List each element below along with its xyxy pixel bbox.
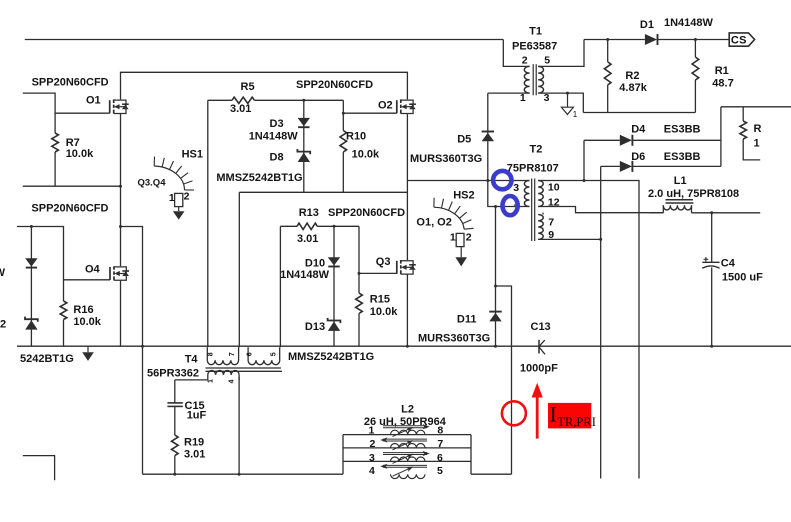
wire T2 pin10 net xyxy=(538,181,639,479)
svg-text:D3: D3 xyxy=(270,118,284,130)
junction D3 top xyxy=(302,99,305,102)
svg-text:R13: R13 xyxy=(299,207,319,219)
wire R19 bottom xyxy=(174,456,176,475)
ground arrow on rail xyxy=(87,346,89,352)
svg-text:CS: CS xyxy=(731,35,747,47)
transformer T1 core xyxy=(532,64,534,95)
junction primary return xyxy=(494,285,497,288)
annotation red label box xyxy=(548,403,591,429)
svg-text:SPP20N60CFD: SPP20N60CFD xyxy=(296,79,373,91)
transformer T4 winding 1-4 xyxy=(207,375,209,380)
diode D10 xyxy=(328,257,340,265)
svg-text:D4: D4 xyxy=(631,124,646,136)
wire C15 R19 line top xyxy=(175,379,208,381)
wire Q2 source to Q3 drain xyxy=(406,114,408,260)
svg-text:1500 uF: 1500 uF xyxy=(722,271,763,283)
annotation red arrow xyxy=(536,397,539,439)
wire R2 R1 bottom loop xyxy=(583,112,695,114)
wire R7 bottom xyxy=(54,152,56,186)
wire primary return jog xyxy=(496,286,512,474)
resistor R19 xyxy=(172,435,179,456)
wire R16 section xyxy=(63,280,65,301)
svg-text:10.0k: 10.0k xyxy=(66,148,94,160)
wire rail F xyxy=(239,191,407,193)
junction branch xyxy=(119,225,122,228)
svg-text:1: 1 xyxy=(169,192,175,204)
wire T4 bottom winding right pin xyxy=(238,377,240,474)
wire left diode chain xyxy=(30,227,32,347)
zener D8 xyxy=(297,149,310,154)
svg-text:4: 4 xyxy=(229,379,236,383)
wire dangling stub bottom left xyxy=(23,456,55,481)
junction R15 gate xyxy=(358,272,361,275)
diode D3 xyxy=(298,118,310,126)
diode D5 xyxy=(482,131,494,133)
svg-text:Q3.Q4: Q3.Q4 xyxy=(138,178,167,189)
svg-text:D8: D8 xyxy=(270,151,284,163)
wire L1 to output xyxy=(692,212,761,214)
svg-text:R: R xyxy=(754,123,762,135)
junction D10 top xyxy=(333,225,336,228)
wire branch to bottom loop xyxy=(121,227,143,475)
svg-text:O2: O2 xyxy=(378,99,393,111)
svg-text:9: 9 xyxy=(548,229,554,241)
wire C4 branch xyxy=(711,213,713,262)
wire R13 line vertical to T4 pin5 xyxy=(279,226,281,347)
svg-text:5242BT1G: 5242BT1G xyxy=(20,353,74,365)
wire R1 branch bottom xyxy=(694,80,696,113)
capacitor C13 xyxy=(538,340,540,354)
svg-text:5: 5 xyxy=(437,465,443,477)
svg-text:SPP20N60CFD: SPP20N60CFD xyxy=(328,207,405,219)
wire D3 D8 chain xyxy=(303,100,305,192)
inductor L2 winding row 1 xyxy=(343,434,471,436)
mosfet Q1 xyxy=(109,100,111,113)
wire T2 pin3 net xyxy=(407,180,529,182)
junction D4 riser xyxy=(583,179,586,182)
svg-text:PE63587: PE63587 xyxy=(512,41,557,53)
annotation red circle xyxy=(502,401,526,425)
wire right resistor bottom xyxy=(743,139,760,160)
wire rail E right xyxy=(471,473,512,475)
svg-text:3.01: 3.01 xyxy=(184,449,205,461)
heatsink HS2 xyxy=(434,207,464,229)
svg-text:R10: R10 xyxy=(346,131,366,143)
wire main ground rail xyxy=(17,345,791,347)
svg-text:3: 3 xyxy=(513,182,519,194)
zener left chain bottom xyxy=(25,317,38,322)
wire R13 to R15 xyxy=(317,225,359,227)
capacitor C15 xyxy=(167,402,182,404)
svg-text:MURS360T3G: MURS360T3G xyxy=(418,333,490,345)
heatsink HS1 xyxy=(154,166,184,190)
wire D6 cathode xyxy=(633,165,721,167)
svg-text:8: 8 xyxy=(208,352,215,356)
diode D1 xyxy=(645,34,657,45)
inductor L2 left edge xyxy=(342,435,344,475)
annotation blue circle 1 xyxy=(493,171,511,189)
wire R13 net xyxy=(280,225,297,227)
wire D10 D13 chain xyxy=(333,226,335,346)
svg-text:MURS360T3G: MURS360T3G xyxy=(410,153,482,165)
wire R7 top xyxy=(54,113,56,133)
inductor L1 xyxy=(650,212,663,214)
svg-text:8: 8 xyxy=(437,424,443,436)
svg-text:1N4148W: 1N4148W xyxy=(280,269,330,281)
transformer T1 primary coil xyxy=(524,66,529,93)
svg-text:D10: D10 xyxy=(305,258,325,270)
diode D11 xyxy=(489,311,501,313)
svg-text:SPP20N60CFD: SPP20N60CFD xyxy=(31,203,108,215)
svg-text:1: 1 xyxy=(208,379,215,383)
svg-text:1: 1 xyxy=(573,110,578,119)
resistor R2 xyxy=(604,62,611,85)
svg-text:Q3: Q3 xyxy=(376,256,391,268)
svg-text:O1, O2: O1, O2 xyxy=(416,217,451,229)
resistor R1 xyxy=(692,57,699,80)
resistor R10 xyxy=(340,131,347,153)
wire R10 jog to Q2 gate xyxy=(343,100,397,113)
svg-text:1: 1 xyxy=(520,92,526,104)
svg-text:L2: L2 xyxy=(401,404,414,416)
svg-text:2: 2 xyxy=(370,438,376,450)
svg-text:T4: T4 xyxy=(185,353,199,365)
wire top rail right section xyxy=(584,39,645,41)
svg-text:R15: R15 xyxy=(370,294,390,306)
svg-text:1N4148W: 1N4148W xyxy=(249,131,299,143)
wire T2 pin12 to L1 xyxy=(576,212,651,214)
resistor R15 xyxy=(356,293,363,314)
resistor R right edge xyxy=(740,121,747,139)
inductor L2 winding row 2 xyxy=(343,447,471,449)
svg-text:R2: R2 xyxy=(625,70,639,82)
transformer T4 winding 8-7 xyxy=(206,347,208,360)
svg-text:2.0 uH, 75PR8108: 2.0 uH, 75PR8108 xyxy=(648,188,739,200)
svg-text:2: 2 xyxy=(522,54,528,66)
svg-text:D1: D1 xyxy=(640,19,654,31)
svg-text:6: 6 xyxy=(437,452,443,464)
svg-text:3.01: 3.01 xyxy=(297,233,318,245)
wire D6 vertical xyxy=(600,166,602,478)
wire D4 cathode xyxy=(633,139,721,141)
svg-text:ES3BB: ES3BB xyxy=(664,151,701,163)
wire T2 pin9 net xyxy=(538,238,601,240)
svg-text:T1: T1 xyxy=(529,26,542,38)
resistor R5 xyxy=(232,97,255,103)
junction R2 top xyxy=(606,38,609,41)
wire D5 vertical xyxy=(488,93,530,206)
wire rail F left drop to T4 pin7 xyxy=(238,192,240,347)
wire D6 anode riser xyxy=(601,165,620,167)
net flag CS xyxy=(729,33,754,46)
svg-text:ES3BB: ES3BB xyxy=(664,124,701,136)
wire T2 pin12 net xyxy=(538,207,663,213)
wire D1 cathode to CS xyxy=(658,39,729,41)
svg-text:2: 2 xyxy=(466,231,472,243)
svg-text:6: 6 xyxy=(246,352,253,356)
svg-text:7: 7 xyxy=(229,352,236,356)
wire T1 pin2 jog xyxy=(503,40,529,67)
mosfet Q2 xyxy=(396,100,398,113)
svg-text:R5: R5 xyxy=(241,81,255,93)
transformer T4 core xyxy=(206,367,282,369)
svg-text:3.01: 3.01 xyxy=(230,103,251,115)
svg-text:3: 3 xyxy=(369,452,375,464)
inductor L2 winding row 3 xyxy=(343,460,471,462)
svg-text:56PR3362: 56PR3362 xyxy=(147,368,199,380)
wire right resistor top xyxy=(742,107,744,121)
junction Q3 source rail xyxy=(406,345,409,348)
transformer T2 secondary coil 10-12 xyxy=(538,181,543,207)
svg-text:SPP20N60CFD: SPP20N60CFD xyxy=(32,77,109,89)
svg-text:D11: D11 xyxy=(457,313,477,325)
svg-text:HS1: HS1 xyxy=(182,149,203,161)
svg-text:10.0k: 10.0k xyxy=(73,316,101,328)
svg-text:R1: R1 xyxy=(715,65,729,77)
wire R5 to D3 R10 xyxy=(255,99,344,101)
junction rail crossing branch xyxy=(141,345,144,348)
wire R15 bottom xyxy=(358,314,360,347)
wire T1 pin1 xyxy=(488,92,530,94)
wire R16 bottom xyxy=(63,320,65,347)
wire T1 pin5 jog xyxy=(538,40,584,67)
svg-text:R16: R16 xyxy=(73,304,93,316)
transformer T2 secondary coil 7-9 xyxy=(538,215,543,240)
wire Q4 source xyxy=(120,281,122,347)
svg-text:2: 2 xyxy=(184,190,190,202)
svg-text:O1: O1 xyxy=(86,95,101,107)
svg-text:1N4148W: 1N4148W xyxy=(664,17,714,29)
inductor L2 winding row 4 xyxy=(391,474,425,478)
svg-text:C4: C4 xyxy=(721,258,736,270)
svg-text:O4: O4 xyxy=(85,264,101,276)
wire rail C xyxy=(23,185,121,187)
svg-text:5: 5 xyxy=(270,352,277,356)
svg-text:4: 4 xyxy=(369,465,375,477)
thermostat HS2 xyxy=(456,233,464,246)
wire Q3 source xyxy=(406,274,408,346)
junction gate net left xyxy=(30,225,33,228)
transformer T2 primary coil xyxy=(524,181,529,207)
svg-text:T2: T2 xyxy=(530,143,543,155)
wire D4 anode xyxy=(584,139,620,141)
transformer T4 winding 6-5 xyxy=(247,347,249,360)
wire R5 net horizontal xyxy=(208,99,232,101)
svg-text:D6: D6 xyxy=(631,151,645,163)
zener D13 xyxy=(328,318,341,323)
svg-text:C13: C13 xyxy=(531,321,551,333)
transformer T1 secondary coil xyxy=(538,66,543,93)
svg-text:10.0k: 10.0k xyxy=(370,306,398,318)
svg-text:12: 12 xyxy=(548,197,560,209)
svg-text:10: 10 xyxy=(548,182,560,194)
diode D6 xyxy=(620,161,632,172)
svg-text:W: W xyxy=(0,267,6,279)
svg-text:1000pF: 1000pF xyxy=(520,363,558,375)
svg-text:48.7: 48.7 xyxy=(712,77,733,89)
wire R2 branch bottom xyxy=(607,85,609,113)
wire R10 bottom xyxy=(342,152,344,192)
wire Q1 gate net xyxy=(23,93,110,113)
svg-text:75PR8107: 75PR8107 xyxy=(507,162,559,174)
svg-text:4.87k: 4.87k xyxy=(619,82,647,94)
wire Q1 source to Q4 drain xyxy=(120,114,122,266)
junction R1 top xyxy=(694,38,697,41)
svg-text:7: 7 xyxy=(548,216,554,228)
svg-text:10.0k: 10.0k xyxy=(352,149,380,161)
transformer T2 core xyxy=(531,179,533,242)
wire R15 top section xyxy=(358,226,360,293)
svg-text:1uF: 1uF xyxy=(187,409,207,421)
thermostat HS1 xyxy=(175,193,183,206)
wire Q4 gate net xyxy=(17,227,110,280)
resistor R13 xyxy=(297,223,317,229)
svg-text:1: 1 xyxy=(754,138,760,150)
mosfet Q4 xyxy=(109,267,111,280)
svg-text:26 uH, 50PR964: 26 uH, 50PR964 xyxy=(364,416,447,428)
junction D11 bottom rail xyxy=(494,345,497,348)
junction pin9 xyxy=(599,238,602,241)
junction R10 gate xyxy=(342,112,345,115)
svg-text:5: 5 xyxy=(544,54,550,66)
resistor R7 xyxy=(52,133,59,152)
wire right bus vertical xyxy=(720,107,722,167)
svg-text:MMSZ5242BT1G: MMSZ5242BT1G xyxy=(288,351,374,363)
svg-text:1: 1 xyxy=(369,424,375,436)
wire rail B (MOSFET drain bus) xyxy=(121,72,408,99)
wire D11 branch xyxy=(495,207,497,347)
svg-text:3: 3 xyxy=(544,92,550,104)
wire D4 riser xyxy=(583,140,585,180)
wire R1 branch top xyxy=(694,40,696,58)
svg-text:R19: R19 xyxy=(184,436,204,448)
inductor L2 right edge xyxy=(470,435,472,475)
resistor R16 xyxy=(60,301,67,320)
svg-text:1: 1 xyxy=(450,232,456,244)
svg-text:7: 7 xyxy=(437,438,443,450)
capacitor C4 xyxy=(702,261,719,263)
wire top rail left section xyxy=(25,39,504,41)
junction rail E R19 xyxy=(173,473,176,476)
svg-text:L1: L1 xyxy=(674,175,687,187)
annotation blue circle 2 xyxy=(503,196,518,215)
junction D5 pin3 xyxy=(486,179,489,182)
junction T1 pin3 ground xyxy=(566,92,569,95)
junction C4 tap xyxy=(710,211,713,214)
svg-text:MMSZ5242BT1G: MMSZ5242BT1G xyxy=(216,172,302,184)
wire Q3 gate xyxy=(359,272,397,274)
wire C15 to R19 xyxy=(174,407,176,435)
diode D4 xyxy=(620,135,632,146)
junction C4 rail xyxy=(710,345,713,348)
mosfet Q3 xyxy=(396,261,398,274)
svg-text:HS2: HS2 xyxy=(453,190,474,202)
wire T1 pin3 xyxy=(538,93,583,112)
junction rail C Q1 xyxy=(119,185,122,188)
wire rail E left xyxy=(143,473,344,475)
wire T2 pin7 stub xyxy=(542,213,544,215)
wire R5 line vertical to T4 pin8 xyxy=(207,100,209,347)
wire C15 top xyxy=(174,380,176,403)
diode left chain top xyxy=(25,258,37,266)
wire top right rail xyxy=(721,106,791,108)
svg-text:2: 2 xyxy=(0,319,6,331)
wire R2 branch top xyxy=(607,40,609,62)
wire C4 bottom xyxy=(711,268,713,347)
junction D11 top xyxy=(494,205,497,208)
svg-text:D13: D13 xyxy=(305,321,325,333)
junction rail E T4 xyxy=(238,473,241,476)
svg-text:D5: D5 xyxy=(457,133,471,145)
ground symbol T1 pin3 xyxy=(567,93,569,107)
wire R10 section xyxy=(342,113,344,130)
